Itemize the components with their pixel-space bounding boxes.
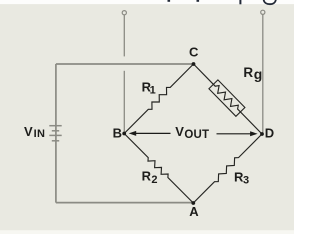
svg-text:3: 3 [243, 175, 249, 187]
svg-text:V: V [24, 124, 33, 139]
svg-text:2: 2 [151, 174, 157, 186]
svg-text:1: 1 [150, 85, 156, 97]
svg-text:V: V [175, 124, 184, 139]
svg-text:A: A [189, 204, 199, 219]
svg-text:B: B [113, 125, 122, 140]
svg-text:R: R [142, 169, 152, 184]
svg-text:IN: IN [34, 128, 46, 140]
svg-text:C: C [189, 45, 199, 60]
svg-text:D: D [265, 126, 274, 141]
svg-text:OUT: OUT [184, 129, 209, 141]
svg-text:g: g [254, 66, 263, 82]
svg-text:R: R [243, 65, 253, 80]
